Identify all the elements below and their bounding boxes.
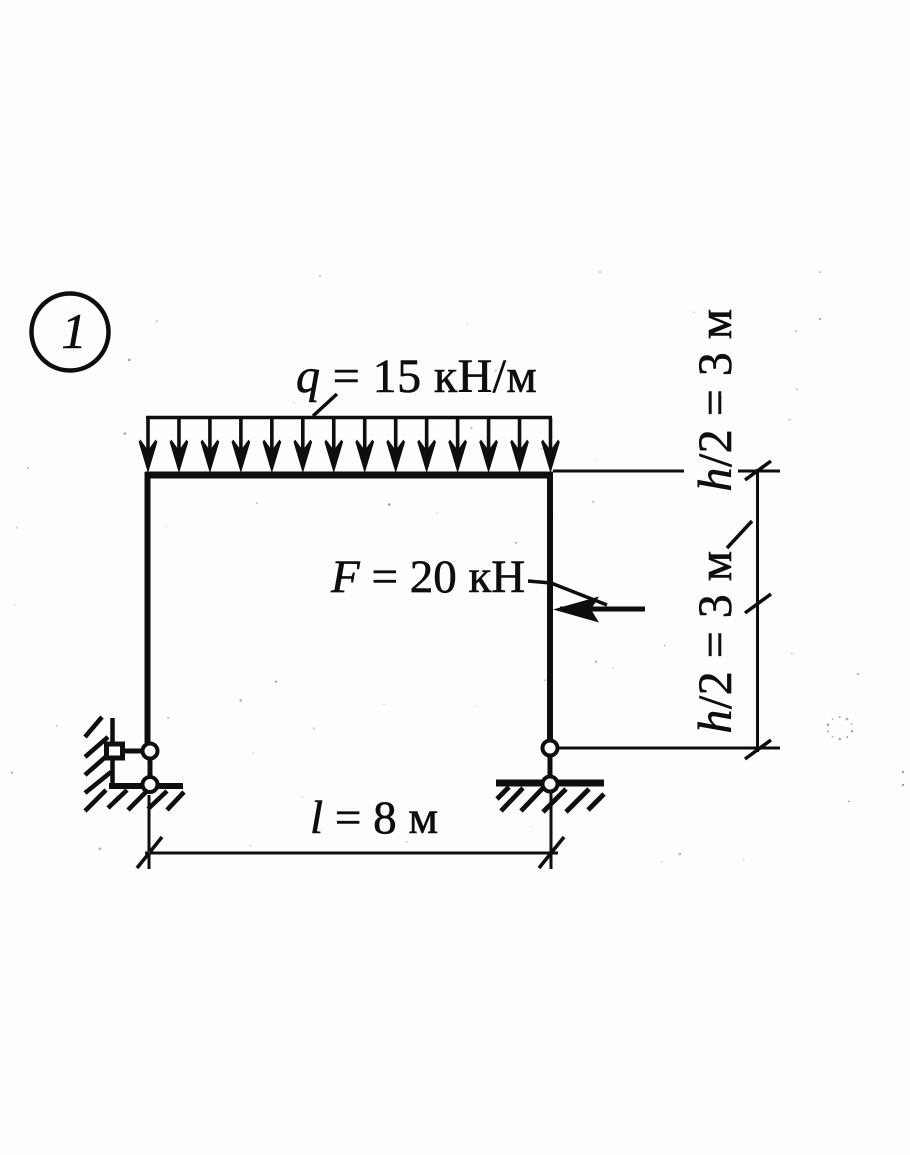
top beam: [145, 472, 553, 479]
load arrow 10: [418, 418, 436, 472]
load arrow 13: [511, 418, 529, 472]
load arrow 8: [356, 418, 374, 472]
left support vertical link: [148, 751, 153, 784]
load arrow 1: [139, 418, 157, 472]
load arrow 11: [449, 418, 467, 472]
load arrow 2: [170, 418, 188, 472]
load arrow 3: [201, 418, 219, 472]
svg-text:q = 15 кН/м: q = 15 кН/м: [296, 350, 537, 403]
leader line for F label: [528, 581, 607, 605]
height dimension tick middle: [745, 594, 771, 613]
distributed load line: [146, 416, 552, 420]
left support wall pin square: [107, 744, 123, 758]
height dimension tick top: [745, 461, 771, 480]
span tick left: [137, 837, 162, 868]
load arrow 6: [294, 418, 312, 472]
top extension line: [553, 470, 780, 473]
left support ground line: [109, 783, 183, 789]
height dimension line: [756, 469, 759, 752]
svg-text:h/2 = 3 м: h/2 = 3 м: [689, 550, 742, 733]
left support wall hatching: [85, 717, 111, 811]
svg-text:l = 8 м: l = 8 м: [310, 792, 438, 844]
left support ground hatching: [108, 790, 184, 810]
right support upper pin: [543, 741, 558, 756]
problem number circle 1: [32, 294, 109, 371]
svg-text:1: 1: [62, 303, 87, 359]
bottom extension line right: [559, 747, 780, 750]
span left extension line: [148, 795, 151, 869]
load arrow 7: [325, 418, 343, 472]
right support vertical link: [548, 748, 553, 784]
height dimension tick bottom: [745, 740, 771, 759]
right support ground line: [496, 780, 604, 787]
left support upper pin: [143, 744, 158, 759]
svg-text:F = 20 кН: F = 20 кН: [330, 551, 525, 603]
load arrow 9: [387, 418, 405, 472]
right support ground hatching: [497, 787, 604, 812]
force F arrow: [553, 597, 645, 623]
left column: [145, 472, 151, 743]
right column: [547, 472, 553, 740]
span right extension line: [550, 793, 553, 869]
load arrow 4: [232, 418, 250, 472]
slash between h labels: [727, 521, 752, 548]
svg-text:h/2 = 3 м: h/2 = 3 м: [689, 308, 742, 491]
left support wall edge: [110, 718, 115, 789]
span tick right: [539, 837, 564, 868]
load arrow 12: [480, 418, 498, 472]
span dimension line: [145, 852, 558, 855]
leader line for q label: [313, 394, 337, 416]
right support lower pin: [543, 777, 558, 792]
left support horizontal link: [114, 749, 150, 754]
load arrow 14: [542, 418, 560, 472]
load arrow 5: [263, 418, 281, 472]
left support lower pin: [143, 777, 158, 792]
